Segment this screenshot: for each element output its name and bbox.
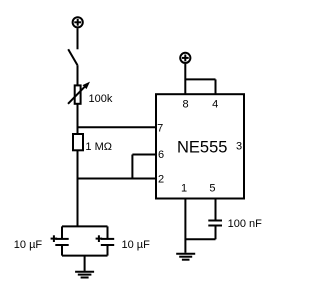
power supply V+ (left branch) (73, 17, 83, 27)
svg-text:10 µF: 10 µF (122, 239, 151, 251)
wire pin 1 down (184, 199, 186, 253)
capacitor C2 10uF (96, 226, 115, 255)
svg-text:3: 3 (236, 141, 242, 153)
capacitor C1 10uF (51, 226, 69, 255)
svg-text:NE555: NE555 (177, 138, 227, 156)
op IC U1 NE555 body (156, 94, 244, 198)
svg-text:5: 5 (209, 182, 215, 194)
rheostat R1 100k (68, 82, 90, 104)
wire bottom cap rail (62, 255, 108, 257)
wire cap to pin1 wire (185, 238, 215, 240)
svg-text:8: 8 (183, 98, 189, 110)
wire node B to pin 2 (78, 178, 158, 180)
wire pin 5 down (215, 199, 217, 221)
svg-text:4: 4 (212, 98, 218, 110)
wire pin 4 link (185, 79, 215, 94)
wire resistor to node B (77, 150, 79, 226)
ground (IC side) (176, 254, 195, 260)
wire rheostat to node A (77, 104, 79, 134)
wire supply to switch (77, 28, 79, 49)
switch S1 (open) (68, 49, 77, 65)
wire node A to pin 7 (78, 126, 158, 128)
svg-text:1: 1 (181, 182, 187, 194)
svg-text:7: 7 (157, 123, 163, 135)
power supply V+ (IC) (180, 53, 190, 63)
capacitor C3 100nF (208, 221, 222, 240)
wire pin 8 to supply (184, 64, 186, 94)
svg-text:10 µF: 10 µF (14, 239, 43, 251)
wire pin 6 stub (132, 155, 157, 179)
svg-text:1 MΩ: 1 MΩ (85, 141, 112, 153)
wire top cap rail (62, 225, 108, 227)
svg-text:100 nF: 100 nF (228, 218, 263, 230)
resistor R2 1M (73, 134, 83, 150)
ground (cap side) (75, 256, 94, 278)
svg-text:6: 6 (158, 149, 164, 161)
svg-text:2: 2 (158, 174, 164, 186)
wire switch to rheostat (77, 65, 79, 85)
svg-text:100k: 100k (89, 93, 113, 105)
